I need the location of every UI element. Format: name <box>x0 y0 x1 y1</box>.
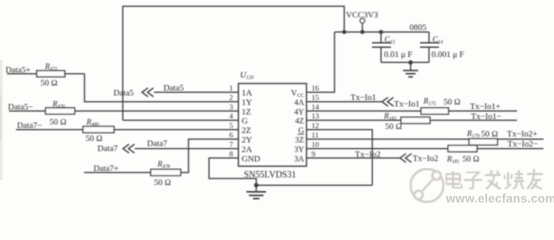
svg-text:SN55LVDS31: SN55LVDS31 <box>244 170 296 180</box>
svg-text:50 Ω: 50 Ω <box>86 133 103 143</box>
ground under capacitors <box>410 62 412 70</box>
resistor R179 <box>469 139 498 145</box>
svg-text:5: 5 <box>229 121 233 130</box>
svg-text:4Y: 4Y <box>294 107 304 116</box>
svg-text:7: 7 <box>229 140 233 149</box>
svg-text:3A: 3A <box>294 154 304 163</box>
svg-text:50 Ω: 50 Ω <box>481 128 498 138</box>
resistor R476 on Data5- <box>9 110 46 112</box>
resistor R181 <box>448 145 477 151</box>
watermark text zi <box>464 172 482 189</box>
wire pin7 row Data7 input <box>135 148 239 150</box>
svg-text:4: 4 <box>229 112 233 121</box>
svg-text:Data7: Data7 <box>147 138 167 148</box>
resistor R182 <box>401 117 430 123</box>
svg-text:Tx−Io2: Tx−Io2 <box>355 149 381 159</box>
capacitor C13 <box>380 32 382 43</box>
wire pin10 row to Tx-Io2- <box>307 148 544 150</box>
svg-text:50 Ω: 50 Ω <box>50 116 67 126</box>
junction dots on VCC rail <box>342 30 346 34</box>
wire pin8 GND down with step <box>209 158 372 185</box>
wire Data5- to pin3 <box>75 110 239 112</box>
wire pin14 row to Tx-Io1+ <box>307 110 518 112</box>
svg-text:GND: GND <box>242 153 261 163</box>
scan smudge left edge <box>0 60 3 180</box>
svg-text:16: 16 <box>312 84 320 93</box>
svg-text:11: 11 <box>312 131 319 140</box>
svg-text:Tx−Io1−: Tx−Io1− <box>471 111 502 121</box>
svg-text:12: 12 <box>312 121 320 130</box>
svg-text:2: 2 <box>229 93 233 102</box>
svg-text:Tx−Io2: Tx−Io2 <box>413 153 439 163</box>
arrow Data5 input chevrons <box>142 88 148 97</box>
svg-text:50 Ω: 50 Ω <box>41 78 58 88</box>
svg-text:50 Ω: 50 Ω <box>462 154 479 164</box>
wire pin11 row to Tx-Io2+ <box>307 138 544 140</box>
svg-text:Data7+: Data7+ <box>94 163 119 173</box>
wire pin15 row Tx-Io1 input <box>307 101 382 103</box>
watermark elecfans logo <box>411 169 444 202</box>
svg-text:2Z: 2Z <box>242 125 252 135</box>
resistor R175 <box>421 108 449 114</box>
svg-text:VCC3V3: VCC3V3 <box>346 10 378 20</box>
svg-text:6: 6 <box>229 131 233 140</box>
wire pin9 row Tx-Io2 input <box>307 157 401 159</box>
ground symbol below IC <box>255 185 257 192</box>
svg-text:50 Ω: 50 Ω <box>385 121 402 131</box>
capacitor C14 <box>428 32 430 43</box>
arrow Data7 input chevrons <box>123 144 129 153</box>
svg-text:14: 14 <box>312 102 320 111</box>
resistor R480 on Data7- <box>16 129 83 131</box>
watermark text shao <box>504 170 524 189</box>
svg-text:Data5: Data5 <box>114 88 134 98</box>
overline for right G pin12 <box>298 133 305 135</box>
svg-text:0.01 μ F: 0.01 μ F <box>384 49 413 59</box>
watermark text dian <box>446 171 462 188</box>
svg-text:www.elecfans.com: www.elecfans.com <box>445 192 554 206</box>
resistor R478 on Data7+ <box>84 172 151 174</box>
svg-text:Tx−Io1: Tx−Io1 <box>394 98 420 108</box>
svg-text:Data5−: Data5− <box>8 101 33 111</box>
wire capacitor bottom rail <box>381 61 429 63</box>
wire VCC top loop from pin4 G to VCC rail <box>123 6 344 120</box>
svg-text:3Z: 3Z <box>295 135 304 144</box>
svg-text:10: 10 <box>312 140 320 149</box>
svg-text:Data5: Data5 <box>164 82 184 92</box>
wire Data7- to pin5 <box>114 129 238 131</box>
wire pin12 G riser to ground rail <box>307 130 373 186</box>
svg-text:50 Ω: 50 Ω <box>154 177 171 187</box>
resistor R472 on Data5+ <box>7 73 37 75</box>
junction dot ground tap <box>254 183 258 187</box>
svg-text:3: 3 <box>229 102 233 111</box>
svg-text:50 Ω: 50 Ω <box>444 97 461 107</box>
arrow Tx-Io2 input chevrons <box>400 154 406 163</box>
svg-text:4Z: 4Z <box>295 117 304 126</box>
svg-text:8: 8 <box>229 149 233 158</box>
svg-text:0.001 μ F: 0.001 μ F <box>432 49 465 59</box>
wire pin4 row from VCC riser <box>123 119 239 121</box>
svg-text:Tx−Io2−: Tx−Io2− <box>508 139 539 149</box>
svg-text:Tx−Io2+: Tx−Io2+ <box>507 128 538 138</box>
power symbol VCC3V3 <box>361 23 363 32</box>
svg-text:2Y: 2Y <box>242 134 253 144</box>
svg-text:0805: 0805 <box>410 22 427 32</box>
svg-text:Data5+: Data5+ <box>6 65 31 75</box>
svg-text:Data7: Data7 <box>98 143 118 153</box>
wire pin1 row Data5 input <box>154 91 238 93</box>
wire VCC rail <box>335 31 430 33</box>
svg-text:Tx−Io1+: Tx−Io1+ <box>470 101 501 111</box>
wire pin16 riser to VCC rail <box>307 32 335 92</box>
svg-text:1A: 1A <box>242 88 253 98</box>
svg-text:G: G <box>298 126 304 135</box>
svg-text:Data7−: Data7− <box>17 120 42 130</box>
svg-text:9: 9 <box>312 149 316 158</box>
arrow Tx-Io1 input chevrons <box>382 97 388 106</box>
wire pin6 row to Data7+ jog <box>181 139 239 172</box>
wire Data5+ jog to pin2 <box>85 74 239 102</box>
svg-text:3Y: 3Y <box>294 145 304 154</box>
svg-text:15: 15 <box>312 93 320 102</box>
watermark text you <box>527 169 543 189</box>
wire pin13 row to Tx-Io1- <box>307 119 518 121</box>
watermark text fa <box>485 170 501 189</box>
IC U120 box SN55LVDS31 <box>238 84 306 167</box>
svg-text:Tx−Io1: Tx−Io1 <box>351 92 377 102</box>
svg-text:1: 1 <box>229 84 233 93</box>
svg-text:4A: 4A <box>294 98 304 107</box>
svg-text:13: 13 <box>312 112 320 121</box>
